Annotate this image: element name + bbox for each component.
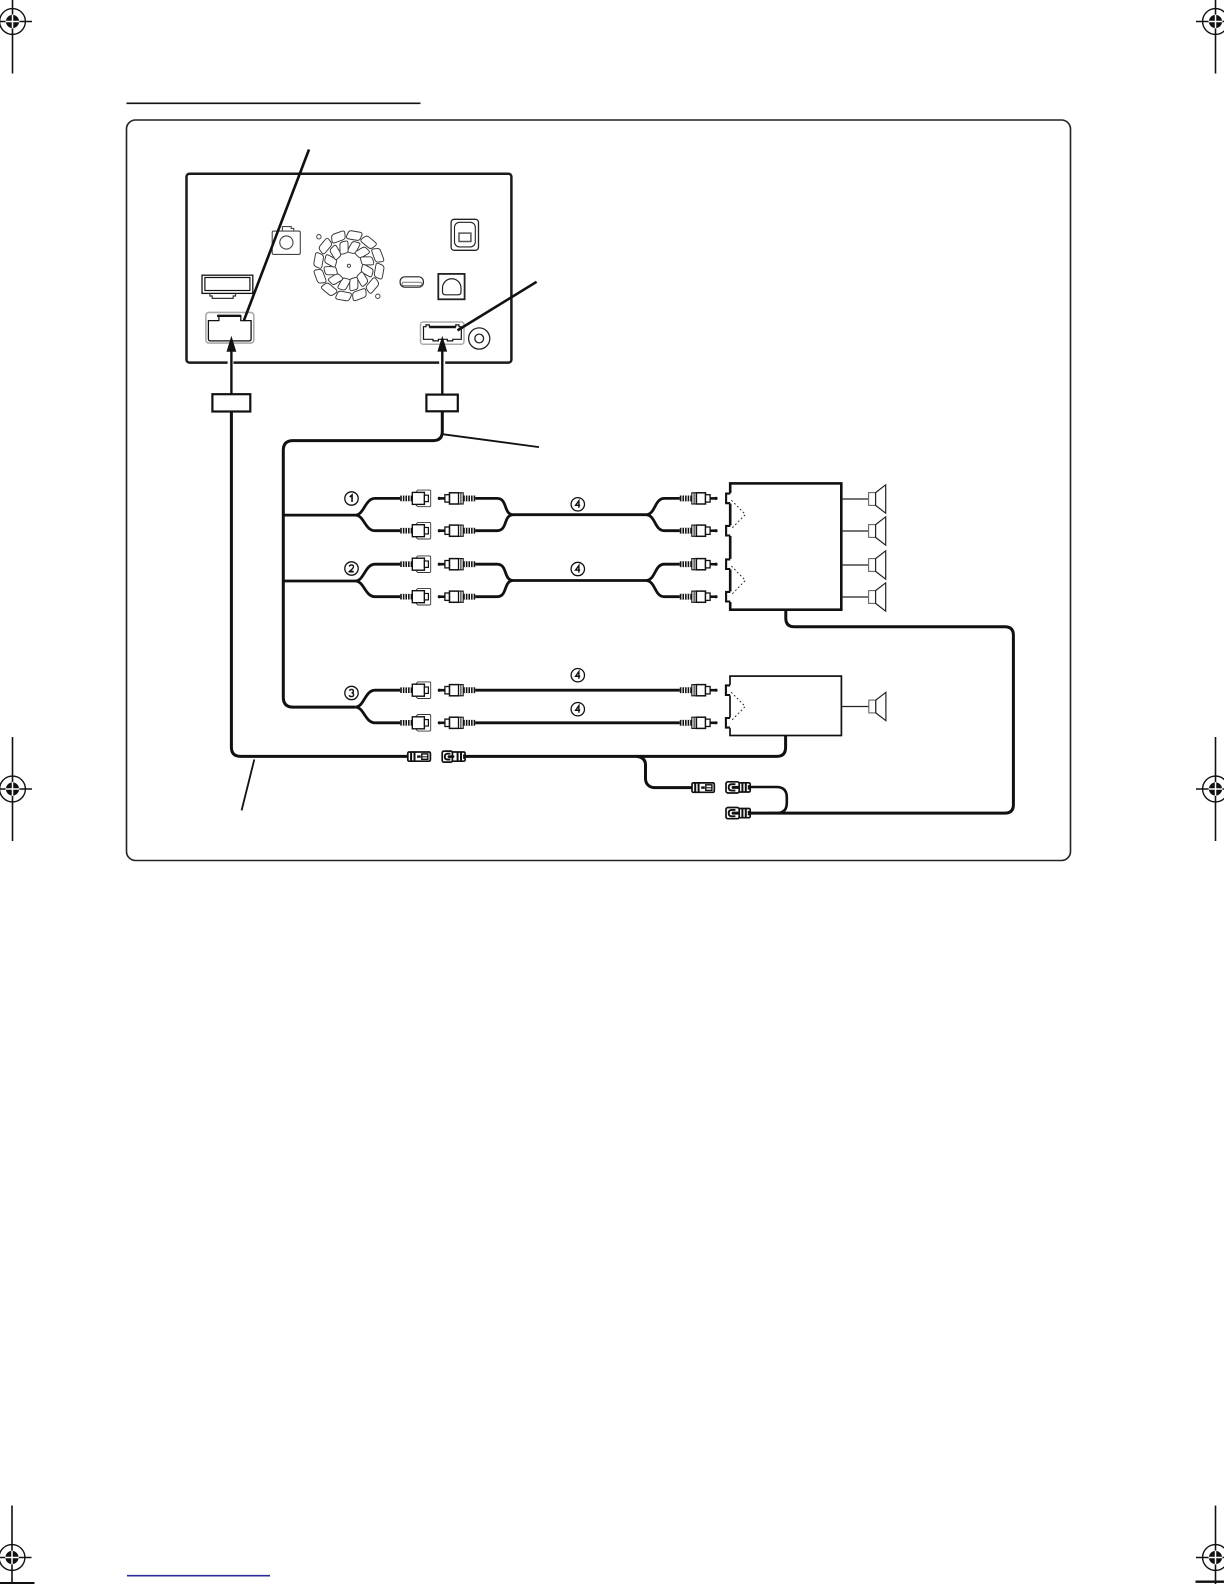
- RCA plug pair1 upper: [438, 493, 476, 504]
- mono amp input gaps: [728, 685, 731, 696]
- right arrow into pre-out connector: [437, 336, 447, 395]
- RCA jack pair2 upper: [400, 556, 431, 573]
- RCA plug pair2 upper: [438, 559, 476, 570]
- speaker wire RL: [841, 564, 868, 566]
- optical digital connector: [451, 219, 478, 250]
- fan screw hole bottom-right: [376, 294, 380, 298]
- RCA plug pair3 lower: [438, 717, 476, 728]
- registration mark bottom-left: [0, 1506, 32, 1584]
- registration mark bottom-right: [1196, 1506, 1224, 1584]
- amp ch1 input stub: [726, 494, 730, 504]
- bullet male on battery lead: [408, 752, 431, 761]
- spade female lower: [726, 808, 750, 819]
- circled 4 c: [571, 669, 584, 682]
- wire: from upper spade female U-turn: [750, 787, 787, 813]
- wire: pair3 long leads: [475, 690, 680, 723]
- circled 1: [345, 492, 358, 505]
- chevron front channels: [731, 500, 745, 529]
- amp ch4 input stub: [726, 592, 730, 602]
- speaker wire subwoofer: [841, 706, 868, 708]
- antenna jack circle: [469, 328, 490, 349]
- gap in panel bottom edge for right arrow: [439, 359, 445, 364]
- wire: 4ch amp power loop: [750, 610, 1014, 813]
- mini port (pill): [400, 277, 423, 287]
- RCA plug at mono amp in1: [680, 685, 718, 696]
- RCA plug pair3 upper: [438, 685, 476, 696]
- callout line to pre-out connector: [458, 282, 537, 331]
- title underline: [127, 102, 421, 104]
- RCA plug at amp ch3: [680, 559, 718, 570]
- speaker RR: [869, 583, 886, 611]
- speaker RL: [869, 551, 886, 579]
- circled 4 a: [571, 498, 584, 511]
- fan screw hole top-left: [317, 235, 321, 239]
- USB-B connector: [438, 274, 464, 299]
- amp ch2 input stub: [726, 526, 730, 536]
- speaker wire FL: [841, 498, 868, 500]
- wire: branch 2 from bus: [283, 564, 400, 597]
- bottom-left corner bar: [0, 1582, 35, 1584]
- registration mark middle-right: [1196, 737, 1224, 841]
- mono amp in2 stub: [726, 718, 730, 728]
- amp ch3 input stub: [726, 559, 730, 569]
- RCA jack pair1 upper: [400, 490, 431, 507]
- cooling fan: [314, 231, 384, 301]
- bullet female on battery lead: [442, 751, 465, 762]
- callout line to harness cable: [443, 434, 539, 447]
- 4-channel amplifier: [730, 483, 841, 609]
- blue footer rule: [127, 1575, 270, 1577]
- subwoofer speaker: [869, 692, 886, 720]
- registration mark middle-left: [0, 737, 32, 841]
- speaker FR: [869, 517, 886, 545]
- RCA jack pair3 lower: [400, 715, 431, 732]
- circled 4 d: [571, 703, 584, 716]
- circled 2: [345, 562, 358, 575]
- spade male upper: [692, 783, 714, 792]
- speaker FL: [869, 485, 886, 513]
- RCA jack pair1 lower: [400, 522, 431, 539]
- speaker wire FR: [841, 530, 868, 532]
- wire: branch 3 (bus end): [355, 690, 400, 723]
- chevron mono: [731, 692, 745, 721]
- wire: pair1 merge to single lead: [475, 498, 680, 530]
- bottom-right corner bar: [1196, 1581, 1224, 1583]
- RCA plug at amp ch2: [680, 525, 718, 536]
- spade female upper: [726, 782, 750, 793]
- circled 3: [345, 686, 358, 699]
- RCA plug pair1 lower: [438, 525, 476, 536]
- head unit rear panel: [187, 174, 512, 363]
- gap in panel bottom edge for left arrow: [228, 359, 234, 364]
- mono amp in1 stub: [726, 685, 730, 695]
- pre-out connector (lower-right): [421, 322, 465, 344]
- chevron rear channels: [731, 566, 745, 595]
- wire: RCA harness from right label down to bus: [283, 411, 442, 707]
- wire: battery lead continues to mono amp: [465, 736, 785, 757]
- callout line bottom-left: [242, 760, 255, 811]
- circled 4 b: [571, 562, 584, 575]
- label box left (power harness): [212, 394, 250, 411]
- display connector (upper-left): [202, 275, 253, 298]
- mono amplifier: [730, 676, 841, 735]
- wire: battery lead from left label down: [231, 412, 407, 757]
- power harness connector (lower-left): [206, 312, 254, 343]
- RCA plug at amp ch4: [680, 591, 718, 602]
- RCA jack pair3 upper: [400, 682, 431, 699]
- speaker wire RR: [841, 596, 868, 598]
- wire: pair2 merge to single lead: [475, 564, 680, 597]
- wire: branch 1 from bus: [283, 498, 400, 530]
- diagram frame: [127, 120, 1071, 861]
- RCA plug at amp ch1: [680, 493, 718, 504]
- wire: branch down to spade male: [637, 756, 692, 787]
- RCA plug pair2 lower: [438, 591, 476, 602]
- left arrow into power connector: [227, 336, 237, 394]
- RCA plug at mono amp in2: [680, 717, 718, 728]
- amp input gaps: [728, 493, 732, 504]
- registration mark top-right: [1196, 0, 1224, 74]
- registration mark top-left: [0, 0, 32, 74]
- label box right (RCA harness): [426, 395, 457, 412]
- callout line to power connector: [244, 150, 309, 322]
- RCA jack pair2 lower: [400, 588, 431, 605]
- camera icon on panel: [272, 227, 300, 255]
